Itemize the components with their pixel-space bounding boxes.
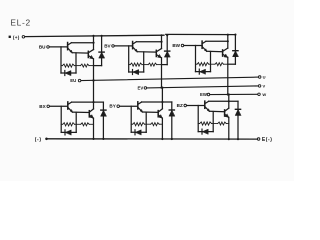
svg-text:U: U [263, 75, 266, 80]
svg-text:EV: EV [137, 86, 143, 91]
svg-text:EU: EU [70, 78, 76, 83]
svg-text:(-): (-) [35, 137, 42, 143]
svg-text:BX: BX [39, 104, 46, 109]
svg-text:EL-2: EL-2 [10, 18, 31, 28]
svg-text:V: V [263, 84, 266, 89]
svg-text:BV: BV [104, 43, 111, 48]
svg-text:BU: BU [39, 44, 46, 49]
svg-text:BW: BW [172, 43, 180, 48]
svg-text:BZ: BZ [177, 103, 183, 108]
svg-text:(+): (+) [13, 35, 20, 40]
svg-text:E(-): E(-) [262, 137, 273, 143]
svg-text:BY: BY [109, 104, 115, 109]
svg-text:W: W [262, 92, 266, 97]
svg-text:EW: EW [200, 92, 208, 97]
